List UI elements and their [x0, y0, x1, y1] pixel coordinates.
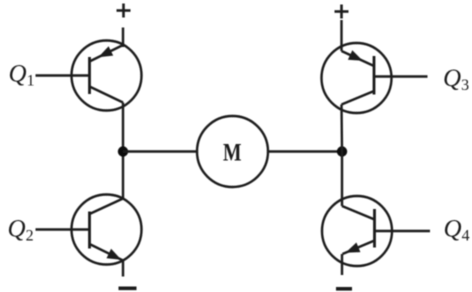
svg-text:Q4: Q4 [444, 216, 470, 245]
wire: left node A down to Q2 collector [122, 152, 124, 199]
svg-text:Q3: Q3 [443, 65, 469, 94]
wire: Q4 emitter down to - terminal [341, 254, 343, 275]
wire: left + supply down to Q1 emitter [122, 28, 124, 48]
transistor Q1 (PNP, emitter to +V, collector to left node) [72, 41, 142, 111]
wire: right node B down to Q4 collector [341, 152, 343, 207]
transistor Q4 (NPN, collector to right node, emitter to -) [322, 196, 392, 266]
transistor Q3 (PNP, emitter to +V, collector to right node) [322, 43, 392, 113]
svg-text:Q1: Q1 [9, 61, 35, 90]
power terminal + (left supply, +V) [117, 4, 131, 18]
wire: node A to motor M [123, 150, 198, 152]
wire: Q2 emitter down to - terminal [122, 261, 124, 277]
node A (left junction dot) [118, 146, 128, 156]
wire: Q1 base lead [36, 74, 90, 76]
svg-text:Q2: Q2 [8, 216, 34, 245]
wire: Q1 collector to left node A [122, 103, 124, 152]
svg-text:M: M [223, 140, 242, 167]
wire: right + supply down to Q3 emitter [340, 20, 342, 51]
wire: Q3 base lead [374, 75, 428, 77]
power terminal - (left supply, -V) [119, 287, 137, 291]
wire: Q2 base lead [36, 228, 90, 230]
wire: motor M to node B [268, 150, 342, 152]
node B (right junction dot) [337, 146, 347, 156]
motor M [197, 116, 268, 187]
wire: Q3 collector to right node B [340, 105, 343, 152]
transistor Q2 (NPN, collector to left node, emitter to -) [72, 195, 142, 265]
power terminal - (right supply, -V) [336, 287, 352, 291]
power terminal + (right supply, +V) [335, 5, 349, 19]
wire: Q4 base lead [375, 230, 431, 232]
